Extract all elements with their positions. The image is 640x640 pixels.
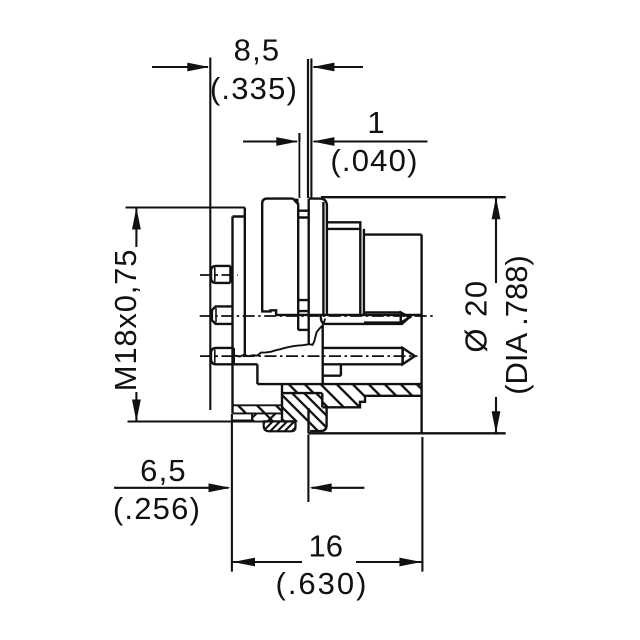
rear tube cap top <box>233 208 245 217</box>
rear tube inner line <box>244 217 246 356</box>
insulator right of pin, rounded corner into right edge <box>309 199 327 315</box>
pin row2 inner cap line <box>215 308 217 322</box>
left solder pin row1 <box>211 266 230 283</box>
dim 6,5 line with right arrow <box>114 487 229 489</box>
centerline row2 <box>200 315 436 317</box>
dim M18 bottom line <box>128 420 232 422</box>
body mid edge <box>276 314 422 316</box>
insert slot step (upper right) <box>327 222 360 229</box>
sectioned pin row3 shaft <box>322 348 403 364</box>
svg-text:M18x0,75: M18x0,75 <box>108 249 143 392</box>
dim 1 extension line left <box>298 133 300 142</box>
insert inner wall <box>363 229 365 315</box>
dim 8,5/1 extension line right <box>310 59 312 198</box>
dim 1 line right arrow <box>314 140 428 142</box>
bore row2 bottom edge with entry chamfer <box>321 316 412 324</box>
dim Ø20 up arrowhead <box>492 197 501 219</box>
svg-text:6,5: 6,5 <box>140 453 187 488</box>
centerline row3 <box>200 355 417 357</box>
break-out squiggle (freehand section boundary) <box>234 319 325 357</box>
pin crimp ticks <box>298 211 310 218</box>
dim 16 line right segment + arrow <box>356 561 421 563</box>
svg-text:Ø 20: Ø 20 <box>459 279 494 352</box>
chamfer into pin left <box>293 199 299 205</box>
dim 16 line left segment + arrow <box>233 561 302 563</box>
svg-text:(DIA .788): (DIA .788) <box>499 255 534 395</box>
svg-text:(.630): (.630) <box>276 566 369 601</box>
flange bottom edge (Ø20 bottom) <box>309 432 506 434</box>
dim 1 line left arrow <box>243 140 297 142</box>
hatch strokes bushing shoulder band <box>214 400 308 418</box>
neck bore inner wall <box>307 408 309 433</box>
centerline row1 <box>200 274 238 276</box>
dim M18 up arrowhead <box>132 208 141 230</box>
dim 6,5 extension line right <box>307 435 309 503</box>
pin top flare wedge <box>293 199 299 205</box>
dim 16 extension line left <box>231 414 233 572</box>
pin row1 inner cap line <box>214 268 216 282</box>
solder pin top (vertical) above body <box>298 133 300 198</box>
svg-text:8,5: 8,5 <box>234 33 281 68</box>
dim Ø20 shaft bottom segment <box>495 397 497 433</box>
dim 8,5 line left arrow <box>152 66 208 68</box>
insulator rib inner line <box>322 202 324 315</box>
insulator bottom / flange top edge <box>257 383 421 385</box>
coarse section right edge with rounded bottom corner <box>310 407 327 431</box>
solder bucket outline <box>264 421 296 431</box>
hatch strokes washer band crosshatch <box>243 410 298 425</box>
hatch strokes solder bucket <box>253 418 312 434</box>
body right edge <box>420 235 422 434</box>
solder pin top right edge above body <box>307 59 309 198</box>
dim 8,5 extension line left <box>209 58 211 411</box>
pin lower ticks <box>298 300 309 311</box>
dim 8,5 line right arrow <box>314 66 364 68</box>
insulator step under pin3 <box>256 364 258 384</box>
rear insulator outline (rounded top-left) <box>262 199 293 316</box>
rear tube face (M18 thread face) <box>231 217 233 414</box>
svg-text:(.256): (.256) <box>113 491 201 526</box>
contact carrier top <box>364 233 422 235</box>
svg-text:16: 16 <box>308 529 342 564</box>
dim M18 top line <box>126 206 245 208</box>
cavity left wall <box>322 325 324 384</box>
pin row3 bottom edge through wall <box>234 363 258 365</box>
dim Ø20 shaft top segment <box>495 197 497 283</box>
left solder pin row3 <box>211 348 234 364</box>
svg-text:(.040): (.040) <box>330 143 418 178</box>
pin row3 cone tip <box>403 348 415 364</box>
shell top line (Ø20 top) <box>321 196 506 198</box>
pin row3 inner cap line <box>214 350 216 363</box>
dim 6,5 right side arrow <box>312 487 365 489</box>
bushing band edges <box>232 405 295 421</box>
dim Ø20 down arrowhead <box>492 411 501 433</box>
hatch strokes flange top staircase band <box>173 380 461 412</box>
insert inner wall 2 <box>359 229 361 315</box>
left solder pin row2 <box>212 306 233 324</box>
pin bottom cup <box>298 329 309 331</box>
hatch strokes coarse flange section <box>241 390 371 436</box>
dim 16 extension line right <box>421 437 423 572</box>
svg-text:1: 1 <box>367 105 384 140</box>
svg-text:(.335): (.335) <box>210 71 298 106</box>
pin shaft below body top <box>298 199 309 344</box>
dim M18 shaft <box>135 208 137 422</box>
pin support shelf <box>323 364 341 375</box>
pin row2 cone tip <box>401 312 410 322</box>
dim M18 down arrowhead <box>132 400 141 422</box>
flange staircase edges <box>282 384 422 422</box>
sectioned pin row2 shaft <box>364 312 401 322</box>
